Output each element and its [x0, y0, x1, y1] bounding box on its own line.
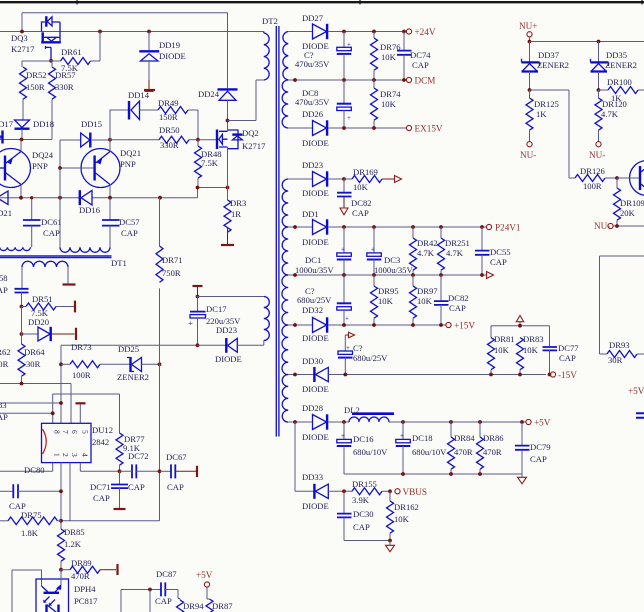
svg-text:DD17: DD17: [0, 119, 14, 129]
svg-text:PNP: PNP: [32, 161, 48, 171]
svg-text:ZENER2: ZENER2: [537, 60, 569, 70]
svg-text:DR83: DR83: [523, 334, 544, 344]
transformer DT1 lower winding: [22, 261, 68, 267]
svg-text:DIODE: DIODE: [302, 384, 329, 394]
diode DD32: [288, 305, 445, 343]
resistor DR50: [111, 125, 199, 150]
resistor DR52: [20, 67, 47, 120]
wire collector row y197.7: [0, 188, 198, 198]
svg-text:2: 2: [61, 453, 70, 457]
svg-text:CAP: CAP: [490, 257, 507, 267]
wire DD37 to DR126: [530, 90, 570, 178]
wire pin7 feed y403: [0, 402, 61, 404]
terminal NU- mid: [596, 142, 601, 147]
svg-text:CAP: CAP: [43, 228, 60, 238]
resistor DR3: [221, 188, 246, 246]
resistor DR64: [0, 334, 45, 384]
wire opto bridge: [12, 570, 42, 612]
terminal +24V: [406, 29, 411, 34]
svg-text:DC58: DC58: [0, 273, 8, 283]
resistor DR75: [0, 510, 61, 538]
svg-text:DR73: DR73: [71, 342, 92, 352]
svg-text:470R: 470R: [454, 447, 473, 457]
svg-text:+5V: +5V: [196, 570, 213, 580]
svg-text:DC82: DC82: [448, 293, 469, 303]
capacitor DC79: [515, 422, 551, 474]
diode DD27: [288, 13, 406, 51]
svg-text:3: 3: [70, 453, 79, 457]
terminal NU- left: [527, 142, 532, 147]
svg-text:150R: 150R: [26, 82, 45, 92]
transformer DT2 secondary S1: [283, 32, 288, 80]
svg-text:470u/35V: 470u/35V: [295, 97, 330, 107]
resistor DR155: [352, 479, 390, 505]
svg-text:DD37: DD37: [538, 50, 560, 60]
svg-text:DIODE: DIODE: [302, 432, 329, 442]
resistor DR120: [595, 90, 627, 142]
svg-text:1.8K: 1.8K: [21, 528, 39, 538]
svg-text:DR3: DR3: [230, 198, 246, 208]
wire row y383.5: [0, 384, 71, 424]
svg-text:5: 5: [81, 430, 90, 434]
svg-text:DD35: DD35: [606, 50, 627, 60]
capacitor DC82 second: [434, 275, 469, 325]
node gate dot: [49, 59, 53, 63]
capacitor DC3: [367, 227, 414, 275]
optocoupler U2 DPH4 PC817: [36, 570, 98, 612]
svg-text:680u/25V: 680u/25V: [353, 353, 388, 363]
svg-text:DC30: DC30: [353, 509, 374, 519]
svg-text:4.7K: 4.7K: [446, 248, 464, 258]
wire emitter row y139.5: [0, 139, 52, 141]
svg-text:K2717: K2717: [11, 44, 35, 54]
svg-text:+15V: +15V: [454, 321, 475, 331]
svg-text:10K: 10K: [378, 296, 394, 306]
diode DD19: [139, 32, 185, 91]
transformer DT1 winding A: [0, 247, 31, 250]
transformer DT2 primary upper: [264, 32, 269, 81]
transistor DQ21 PNP: [60, 140, 141, 198]
capacitor DC74: [397, 32, 431, 81]
wire DR93 loop: [600, 256, 644, 354]
capacitor C? top: [295, 32, 351, 81]
svg-text:DC71: DC71: [90, 482, 111, 492]
terminal EX15V: [406, 125, 411, 130]
zener DD35: [591, 42, 637, 91]
svg-text:DR126: DR126: [580, 166, 606, 176]
svg-text:DIODE: DIODE: [159, 51, 186, 61]
svg-text:680u/25V: 680u/25V: [297, 295, 332, 305]
svg-text:DR50: DR50: [159, 125, 180, 135]
svg-text:DR93: DR93: [609, 340, 630, 350]
svg-text:100R: 100R: [72, 370, 91, 380]
node rail dots: [20, 30, 24, 34]
svg-text:DD18: DD18: [33, 119, 54, 129]
svg-text:DIODE: DIODE: [215, 354, 242, 364]
diode DD16: [79, 190, 101, 215]
svg-text:20K: 20K: [620, 208, 636, 218]
resistor DR93: [607, 340, 644, 365]
svg-text:DR87: DR87: [212, 601, 233, 611]
resistor DR73: [59, 342, 129, 380]
capacitor DC58: [0, 267, 29, 307]
svg-text:DC72: DC72: [128, 451, 149, 461]
wire DCM rail y80: [288, 79, 406, 81]
svg-text:CAP: CAP: [412, 60, 429, 70]
svg-text:30R: 30R: [0, 359, 9, 369]
wire pin4 to cap row: [80, 463, 119, 472]
svg-text:DR155: DR155: [352, 479, 377, 489]
capacitor DC8: [295, 80, 351, 128]
resistor DR48: [195, 140, 222, 188]
terminal DCM: [406, 77, 411, 82]
svg-text:680u/10V: 680u/10V: [412, 447, 447, 457]
capacitor DC57: [102, 198, 140, 248]
wire winding bottom to DD33: [295, 422, 314, 491]
diode DD20: [20, 307, 76, 342]
diode DD23 rail: [288, 160, 344, 198]
svg-text:DR251: DR251: [445, 238, 470, 248]
svg-text:DR62: DR62: [0, 347, 11, 357]
svg-text:CAP: CAP: [0, 412, 8, 422]
svg-text:DD15: DD15: [81, 119, 102, 129]
terminal +5V: [526, 419, 531, 424]
svg-text:VBUS: VBUS: [403, 487, 428, 497]
svg-text:DD23: DD23: [216, 325, 237, 335]
svg-text:DIODE: DIODE: [302, 188, 329, 198]
wire -15V top bar: [491, 322, 550, 347]
svg-text:470R: 470R: [483, 447, 502, 457]
svg-text:DC17: DC17: [206, 304, 227, 314]
capacitor DC67: [160, 452, 198, 492]
ground VBUS: [389, 541, 391, 546]
resistor DR61: [51, 32, 100, 74]
wire rail y345.3: [61, 345, 198, 423]
svg-text:NU-: NU-: [520, 150, 536, 160]
svg-text:DPH4: DPH4: [74, 584, 96, 594]
port arrow mid rail: [487, 272, 494, 279]
svg-text:DD28: DD28: [302, 403, 323, 413]
svg-text:DR49: DR49: [158, 98, 179, 108]
resistor DR97: [410, 275, 439, 325]
svg-text:DR120: DR120: [602, 99, 627, 109]
capacitor DC55: [475, 227, 511, 275]
svg-text:DR42: DR42: [417, 238, 438, 248]
wire main rail y31.5: [0, 31, 264, 33]
svg-text:DC77: DC77: [558, 343, 579, 353]
svg-text:DD21: DD21: [0, 208, 12, 218]
wire DT1 lower right end: [67, 267, 69, 284]
wire source row y187.5: [198, 187, 228, 189]
svg-text:DD33: DD33: [302, 472, 323, 482]
svg-text:10K: 10K: [381, 99, 397, 109]
svg-text:DT2: DT2: [262, 16, 278, 26]
svg-text:2842: 2842: [92, 437, 109, 447]
port +5V bottom: [196, 570, 213, 599]
svg-text:CAP: CAP: [449, 303, 466, 313]
wire +5V bottom rail y474: [344, 473, 522, 475]
diode DD26: [288, 109, 406, 148]
resistor DR126: [569, 166, 617, 191]
svg-text:DC18: DC18: [412, 433, 433, 443]
svg-text:DR169: DR169: [353, 167, 378, 177]
svg-text:8: 8: [53, 430, 62, 434]
resistor DR125: [526, 90, 559, 142]
resistor DR94: [177, 599, 205, 612]
svg-text:CAP: CAP: [352, 208, 369, 218]
svg-text:6: 6: [70, 430, 79, 434]
svg-text:DIODE: DIODE: [302, 237, 329, 247]
svg-text:1000u/35V: 1000u/35V: [374, 265, 413, 275]
transistor DQ2: [198, 121, 266, 188]
svg-text:DR86: DR86: [483, 433, 504, 443]
transformer DT2 primary lower: [264, 297, 270, 341]
svg-text:10K: 10K: [523, 345, 539, 355]
capacitor DC17: [188, 286, 264, 345]
resistor DR100: [599, 77, 644, 103]
svg-text:DC55: DC55: [490, 247, 511, 257]
svg-text:7: 7: [61, 430, 70, 434]
sheet border top: [0, 1, 644, 3]
svg-text:+: +: [188, 318, 193, 328]
transistor right edge: [617, 161, 644, 196]
transformer DT2 core: [276, 26, 279, 437]
svg-text:DL2: DL2: [344, 405, 360, 415]
svg-text:1000u/35V: 1000u/35V: [295, 265, 334, 275]
capacitor DC77: [543, 343, 580, 375]
resistor DR83: [517, 334, 544, 375]
svg-text:PC817: PC817: [74, 596, 98, 606]
terminal +15V: [446, 322, 451, 327]
svg-text:4: 4: [81, 453, 90, 457]
capacitor DC71: [90, 471, 128, 509]
resistor DR76: [371, 32, 402, 81]
capacitor DC18: [396, 422, 447, 474]
svg-text:CAP: CAP: [93, 493, 110, 503]
transistor DQ24 PNP: [0, 140, 54, 198]
svg-text:10K: 10K: [381, 52, 397, 62]
op-amp U1 IC DU12 2842: [42, 423, 114, 462]
resistor DR77: [116, 394, 145, 471]
resistor DR71: [156, 198, 183, 365]
capacitor DC87: [121, 569, 178, 612]
svg-text:DR89: DR89: [71, 558, 92, 568]
svg-text:DC74: DC74: [410, 50, 431, 60]
wire gate row y61: [22, 61, 51, 67]
svg-text:10K: 10K: [394, 514, 410, 524]
transformer DT2 secondary S6: [282, 325, 288, 375]
svg-text:K2717: K2717: [242, 141, 266, 151]
terminal VBUS: [395, 489, 400, 494]
svg-text:30R: 30R: [608, 355, 623, 365]
svg-text:DR64: DR64: [24, 347, 45, 357]
svg-text:CAP: CAP: [155, 596, 172, 606]
diode DD33: [302, 472, 352, 511]
svg-text:ZENER2: ZENER2: [117, 372, 149, 382]
svg-text:750R: 750R: [162, 268, 181, 278]
svg-text:CAP: CAP: [559, 353, 576, 363]
svg-text:DR61: DR61: [61, 47, 82, 57]
capacitor DC82: [337, 179, 372, 218]
power bar above DD14: [145, 90, 154, 92]
svg-text:DU12: DU12: [92, 425, 113, 435]
power bar DT1 lower: [63, 283, 76, 285]
svg-text:-15V: -15V: [558, 370, 577, 380]
svg-text:CAP: CAP: [167, 482, 184, 492]
svg-text:DC83: DC83: [0, 400, 7, 410]
svg-text:+5V: +5V: [534, 418, 551, 428]
capacitor DC30: [337, 491, 390, 540]
svg-text:CAP: CAP: [121, 228, 138, 238]
diode DD23 snubber: [198, 325, 264, 364]
transformer DT2 secondary S2: [282, 80, 288, 128]
svg-text:+5V: +5V: [628, 386, 644, 396]
svg-text:DD16: DD16: [79, 205, 101, 215]
svg-text:CAP: CAP: [128, 482, 145, 492]
svg-text:7.5K: 7.5K: [201, 158, 219, 168]
transistor DQ3: [11, 16, 61, 60]
svg-text:30R: 30R: [26, 359, 41, 369]
svg-text:DD25: DD25: [118, 344, 139, 354]
svg-text:DR94: DR94: [183, 601, 204, 611]
svg-text:DR51: DR51: [32, 294, 53, 304]
svg-text:470u/35V: 470u/35V: [295, 59, 330, 69]
resistor DR74: [371, 80, 402, 128]
svg-text:DD23: DD23: [302, 160, 323, 170]
svg-text:DD32: DD32: [302, 305, 323, 315]
svg-text:DD1: DD1: [302, 209, 319, 219]
svg-text:10K: 10K: [417, 296, 433, 306]
diode DD14: [110, 90, 158, 140]
svg-text:DQ21: DQ21: [120, 148, 141, 158]
resistor DR109: [614, 178, 644, 226]
svg-text:DC1: DC1: [305, 255, 321, 265]
svg-text:CAP: CAP: [353, 522, 370, 532]
diode DD18: [0, 119, 54, 140]
svg-text:DR84: DR84: [454, 433, 475, 443]
svg-text:330R: 330R: [55, 82, 74, 92]
capacitor DC80: [0, 465, 63, 511]
svg-text:+24V: +24V: [415, 27, 436, 37]
svg-text:+: +: [347, 114, 351, 122]
resistor DR51: [20, 294, 75, 318]
svg-text:DC61: DC61: [41, 217, 62, 227]
svg-text:+: +: [345, 315, 349, 323]
capacitor DC61: [23, 196, 62, 247]
terminal P24V1: [486, 224, 491, 229]
svg-text:DC3: DC3: [384, 255, 400, 265]
svg-text:1K: 1K: [536, 109, 547, 119]
svg-text:DC67: DC67: [166, 452, 187, 462]
svg-text:150R: 150R: [159, 112, 178, 122]
transformer DT2 secondary S5: [282, 275, 288, 325]
svg-text:DD26: DD26: [302, 109, 324, 119]
inductor DL2: [344, 405, 526, 422]
svg-text:DR125: DR125: [534, 99, 559, 109]
svg-text:NU+: NU+: [519, 21, 537, 31]
svg-text:DD27: DD27: [302, 13, 324, 23]
svg-text:DIODE: DIODE: [302, 138, 329, 148]
capacitor DC1: [295, 227, 351, 275]
capacitor DC72: [120, 451, 160, 492]
resistor DR85: [58, 527, 85, 570]
diode DD1: [288, 209, 486, 247]
svg-text:EX15V: EX15V: [415, 124, 443, 134]
svg-text:DR95: DR95: [378, 286, 399, 296]
svg-text:DR52: DR52: [26, 70, 47, 80]
resistor DR87: [206, 599, 233, 612]
svg-text:DD24: DD24: [198, 89, 220, 99]
svg-text:C?: C?: [353, 343, 363, 353]
svg-text:10K: 10K: [494, 345, 510, 355]
resistor DR84: [448, 422, 476, 474]
svg-text:DC57: DC57: [119, 217, 140, 227]
resistor DR169: [344, 167, 402, 192]
resistor DR89: [61, 558, 118, 581]
svg-text:10K: 10K: [353, 182, 369, 192]
svg-text:DD19: DD19: [159, 40, 180, 50]
svg-text:DQ24: DQ24: [32, 150, 54, 160]
svg-text:470R: 470R: [71, 571, 90, 581]
wire NU+ rail y41.5: [530, 41, 644, 43]
diode DD30: [288, 356, 546, 394]
zener DD37: [522, 42, 569, 91]
svg-text:NU-: NU-: [589, 150, 605, 160]
capacitor C? 680u/25V upper: [297, 275, 351, 325]
transformer DT1 winding B: [60, 247, 110, 252]
zener DD25: [117, 344, 161, 382]
svg-text:DR74: DR74: [380, 89, 401, 99]
svg-text:DIODE: DIODE: [302, 501, 329, 511]
svg-text:CAP: CAP: [0, 285, 8, 295]
svg-text:CAP: CAP: [530, 454, 547, 464]
terminal -15V: [550, 372, 555, 377]
svg-text:DR81: DR81: [494, 334, 515, 344]
svg-text:1R: 1R: [231, 209, 241, 219]
resistor DR57: [49, 61, 77, 140]
wire top loop y12.7: [22, 13, 228, 32]
svg-text:680u/10V: 680u/10V: [353, 447, 388, 457]
wire pin1 row y471.3: [0, 463, 53, 472]
svg-text:1: 1: [53, 453, 62, 457]
svg-text:DR162: DR162: [394, 502, 419, 512]
wire mid rail y275: [288, 274, 486, 276]
wire pin2 vertical: [60, 463, 62, 529]
svg-text:4.7K: 4.7K: [601, 109, 619, 119]
capacitor right edge: [636, 413, 644, 417]
svg-text:4.7K: 4.7K: [417, 248, 435, 258]
svg-text:DD30: DD30: [302, 356, 323, 366]
transformer DT2 secondary S4: [282, 227, 288, 275]
svg-text:DR85: DR85: [64, 527, 85, 537]
resistor DR81: [488, 334, 515, 375]
svg-text:DQ2: DQ2: [242, 128, 259, 138]
resistor DR162: [387, 491, 419, 540]
svg-text:DR109: DR109: [620, 198, 644, 208]
svg-text:DIODE: DIODE: [302, 333, 329, 343]
svg-text:DQ3: DQ3: [11, 33, 28, 43]
svg-text:DC87: DC87: [156, 569, 177, 579]
port arrow up: [516, 315, 523, 321]
svg-text:1.2K: 1.2K: [64, 539, 82, 549]
svg-text:DC80: DC80: [24, 465, 45, 475]
svg-text:DC82: DC82: [351, 198, 372, 208]
transformer DT1 core: [0, 256, 112, 258]
svg-text:DR75: DR75: [21, 510, 42, 520]
svg-text:DC79: DC79: [530, 442, 551, 452]
svg-text:DR57: DR57: [55, 70, 76, 80]
diode DD15: [60, 119, 110, 168]
